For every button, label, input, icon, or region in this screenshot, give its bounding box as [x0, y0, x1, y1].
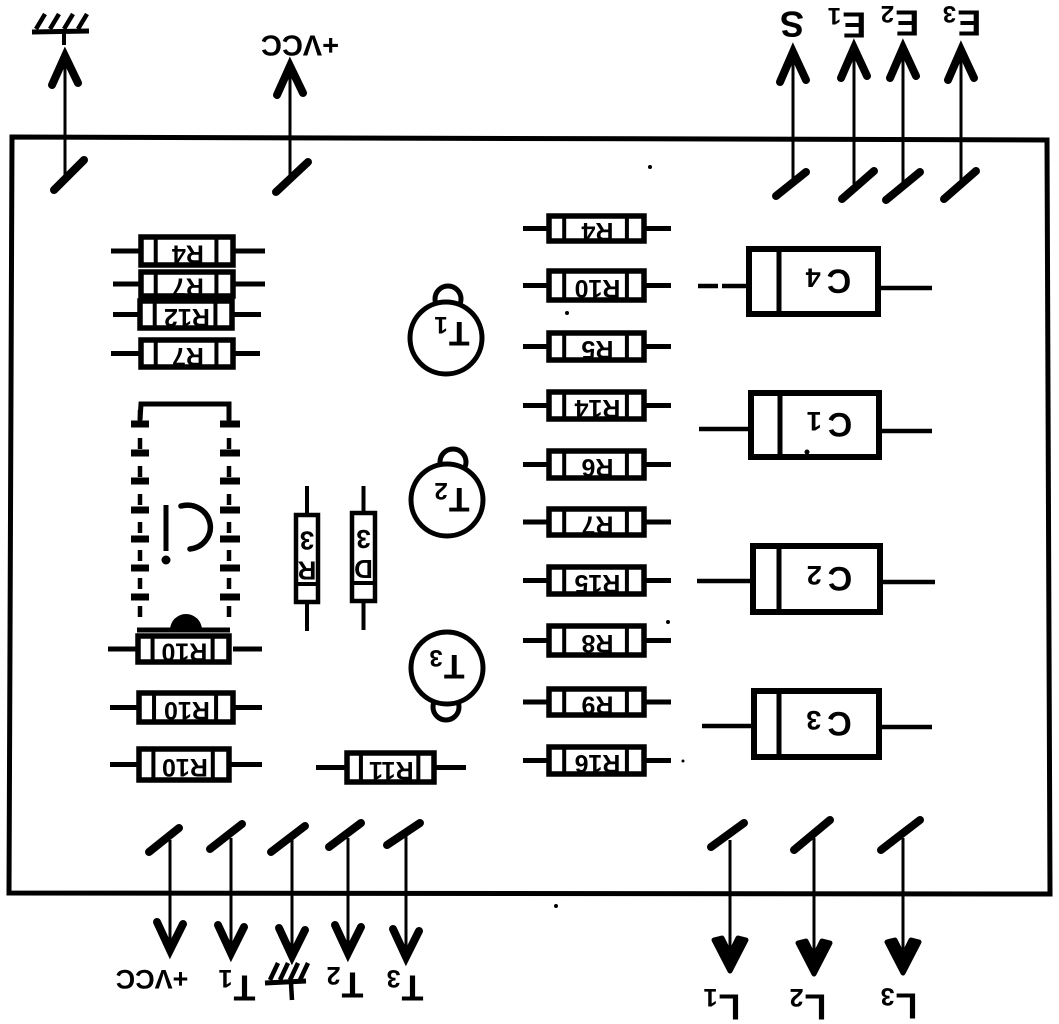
svg-text:D: D — [354, 554, 373, 584]
svg-text:R8: R8 — [581, 629, 613, 657]
svg-text:R4: R4 — [172, 239, 204, 267]
svg-text:+VCC: +VCC — [261, 28, 339, 60]
svg-text:R14: R14 — [574, 394, 620, 422]
svg-text:R15: R15 — [574, 569, 620, 597]
svg-text:R16: R16 — [575, 749, 621, 777]
svg-text:R10: R10 — [575, 274, 621, 302]
svg-text:R10: R10 — [164, 696, 210, 724]
svg-text:R7: R7 — [172, 272, 204, 300]
svg-text:R7: R7 — [581, 510, 613, 538]
svg-text:R6: R6 — [581, 453, 613, 481]
svg-text:R7: R7 — [172, 342, 204, 370]
svg-text:3: 3 — [300, 526, 314, 556]
svg-text:R: R — [297, 556, 316, 586]
svg-text:3: 3 — [356, 524, 370, 554]
svg-text:R9: R9 — [581, 690, 613, 718]
svg-text:R12: R12 — [164, 303, 210, 331]
svg-text:R10: R10 — [162, 753, 208, 781]
svg-text:S: S — [780, 3, 804, 44]
svg-text:R5: R5 — [581, 335, 613, 363]
svg-text:R11: R11 — [369, 756, 414, 784]
svg-text:R4: R4 — [581, 217, 613, 245]
svg-text:+VCC: +VCC — [116, 964, 189, 994]
svg-text:R10: R10 — [161, 637, 207, 665]
